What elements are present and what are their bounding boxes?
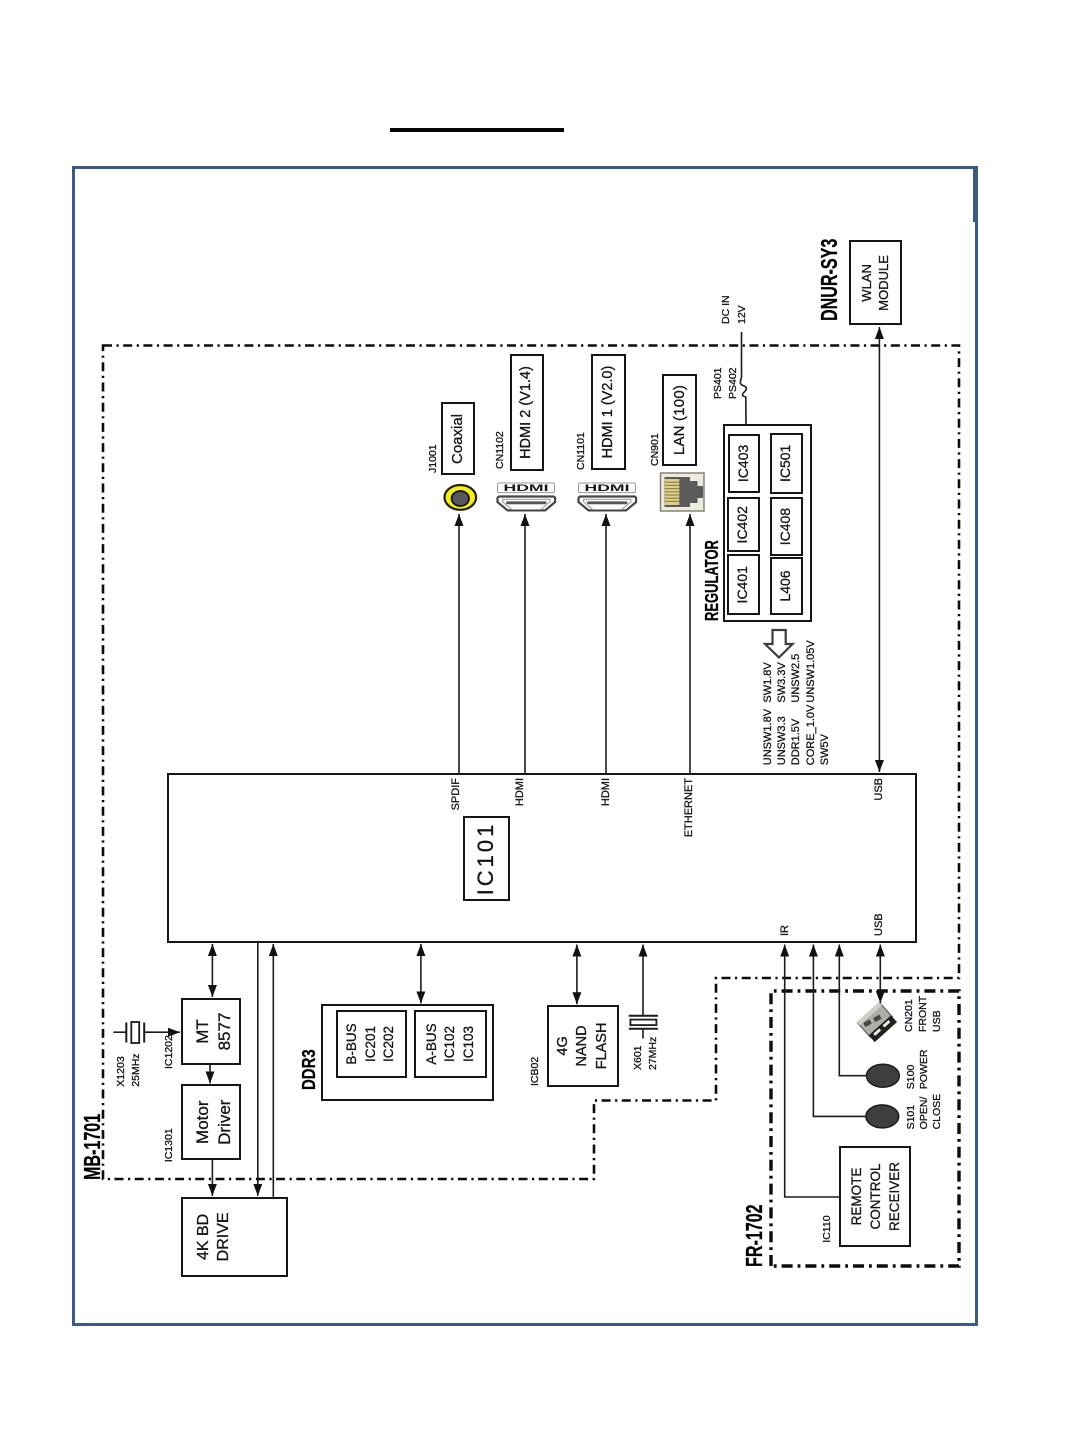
regulator IC501 (770, 433, 804, 494)
wire: 4K BD Drive to IC101 (272, 944, 274, 1197)
connector box LAN CN901 (662, 374, 697, 466)
regulator IC402 (727, 497, 760, 553)
label CN1101 (574, 432, 588, 470)
LAN RJ45 connector icon CN901 (661, 473, 705, 511)
pin label USB (WLAN) (872, 778, 887, 874)
wire: IC101 to MT8577 (211, 944, 213, 997)
wire: Motor Driver to 4K BD Drive (211, 1160, 213, 1196)
pin label SPDIF (449, 778, 464, 874)
label MB-1701 (81, 1114, 104, 1180)
label DNUR-SY3 (818, 239, 841, 321)
pin label ETHERNET (682, 778, 697, 874)
S100 power switch (867, 1064, 900, 1087)
regulator IC408 (770, 497, 804, 556)
crystal X1203 symbol (113, 1031, 126, 1033)
wire SPDIF: IC101 to coaxial jack (458, 514, 460, 773)
wire ETHERNET: IC101 to CN901 (689, 514, 691, 773)
label CN901 (648, 433, 662, 466)
pin label USB (front) (872, 913, 887, 936)
label IC110 (820, 1215, 834, 1242)
labels S100 POWER (905, 1050, 932, 1090)
front USB connector icon CN201 (857, 1002, 897, 1042)
pin label HDMI (CN1101) (599, 778, 614, 874)
label IC1202 (162, 1035, 176, 1069)
wire: IC101 to 4K BD Drive (257, 943, 259, 1196)
connector box HDMI 1 CN1101 (591, 354, 626, 470)
label REGULATOR (703, 540, 721, 621)
FR-1702 board outline (dash-dot) (771, 991, 959, 1266)
IC101 name box (463, 816, 510, 901)
page border frame (72, 166, 978, 1326)
crystal labels X1203 25MHz (114, 1053, 145, 1086)
title underline (390, 128, 564, 132)
wire: IC101 to DDR3 (420, 944, 422, 1003)
hollow arrow: regulator to voltage rails (765, 630, 793, 658)
wire: S101 switch to IC101 (813, 945, 866, 1117)
labels CN201 FRONT USB (902, 996, 945, 1032)
connector box HDMI 2 CN1102 (510, 354, 544, 471)
DDR3 group box (321, 1004, 494, 1101)
pin label IR (778, 925, 793, 936)
DDR3 B-BUS box (336, 1010, 407, 1078)
NAND flash box (547, 1005, 618, 1086)
WLAN module box (849, 240, 902, 325)
MB-1701 board outline (dash-dot) (103, 346, 959, 1180)
wire: crystal X601 to IC101 (642, 945, 644, 1016)
label J1001 (426, 444, 440, 473)
wire USB: IC101 to front USB CN201 (879, 945, 881, 1004)
wire HDMI: IC101 to CN1101 (605, 514, 607, 773)
labels S101 OPEN/ CLOSE (905, 1094, 945, 1130)
pin label HDMI (CN1102) (513, 778, 528, 874)
voltage rail list column 1 (761, 705, 833, 766)
HDMI connector icon CN1102 (497, 483, 555, 510)
S101 open/close switch (866, 1105, 899, 1128)
voltage rail list column 2 (761, 640, 818, 702)
crystal X601 symbol (629, 1015, 658, 1017)
wire: IC101 to NAND flash (576, 945, 578, 1005)
wire: crystal X1203 to MT8577 (144, 1031, 180, 1033)
Motor Driver box (181, 1084, 241, 1160)
regulator L406 (770, 557, 804, 615)
connector box Coaxial J1001 (441, 403, 475, 476)
label DDR3 (300, 1049, 318, 1090)
DDR3 A-BUS box (414, 1010, 487, 1078)
crystal labels X601 27MHz (631, 1037, 661, 1070)
wire HDMI: IC101 to CN1102 (524, 514, 526, 773)
wire: MT8577 to Motor Driver (209, 1065, 211, 1083)
label FR-1702 (743, 1204, 766, 1267)
wire DC IN 12V with fuse PS401/PS402 (740, 332, 746, 424)
label ICB02 (528, 1057, 542, 1086)
main SoC IC101 (167, 773, 917, 943)
regulator IC403 (728, 434, 759, 493)
wire: S100 switch to IC101 (839, 945, 866, 1076)
regulator IC401 (727, 555, 760, 616)
remote control receiver box (839, 1146, 911, 1247)
label CN1102 (493, 431, 507, 469)
page border thick segment (right, upper) (973, 167, 978, 222)
label DC IN 12V (719, 295, 750, 324)
coaxial RCA jack J1001 (445, 485, 477, 510)
4K BD Drive box (181, 1197, 288, 1277)
label IC1301 (162, 1128, 176, 1162)
wire IR: remote control receiver to IC101 (785, 945, 840, 1198)
HDMI connector icon CN1101 (579, 483, 637, 510)
wire USB: IC101 to WLAN module (878, 327, 880, 772)
label PS401 PS402 (711, 367, 741, 399)
MT8577 motor controller box (181, 998, 241, 1065)
regulator group box (723, 424, 812, 622)
